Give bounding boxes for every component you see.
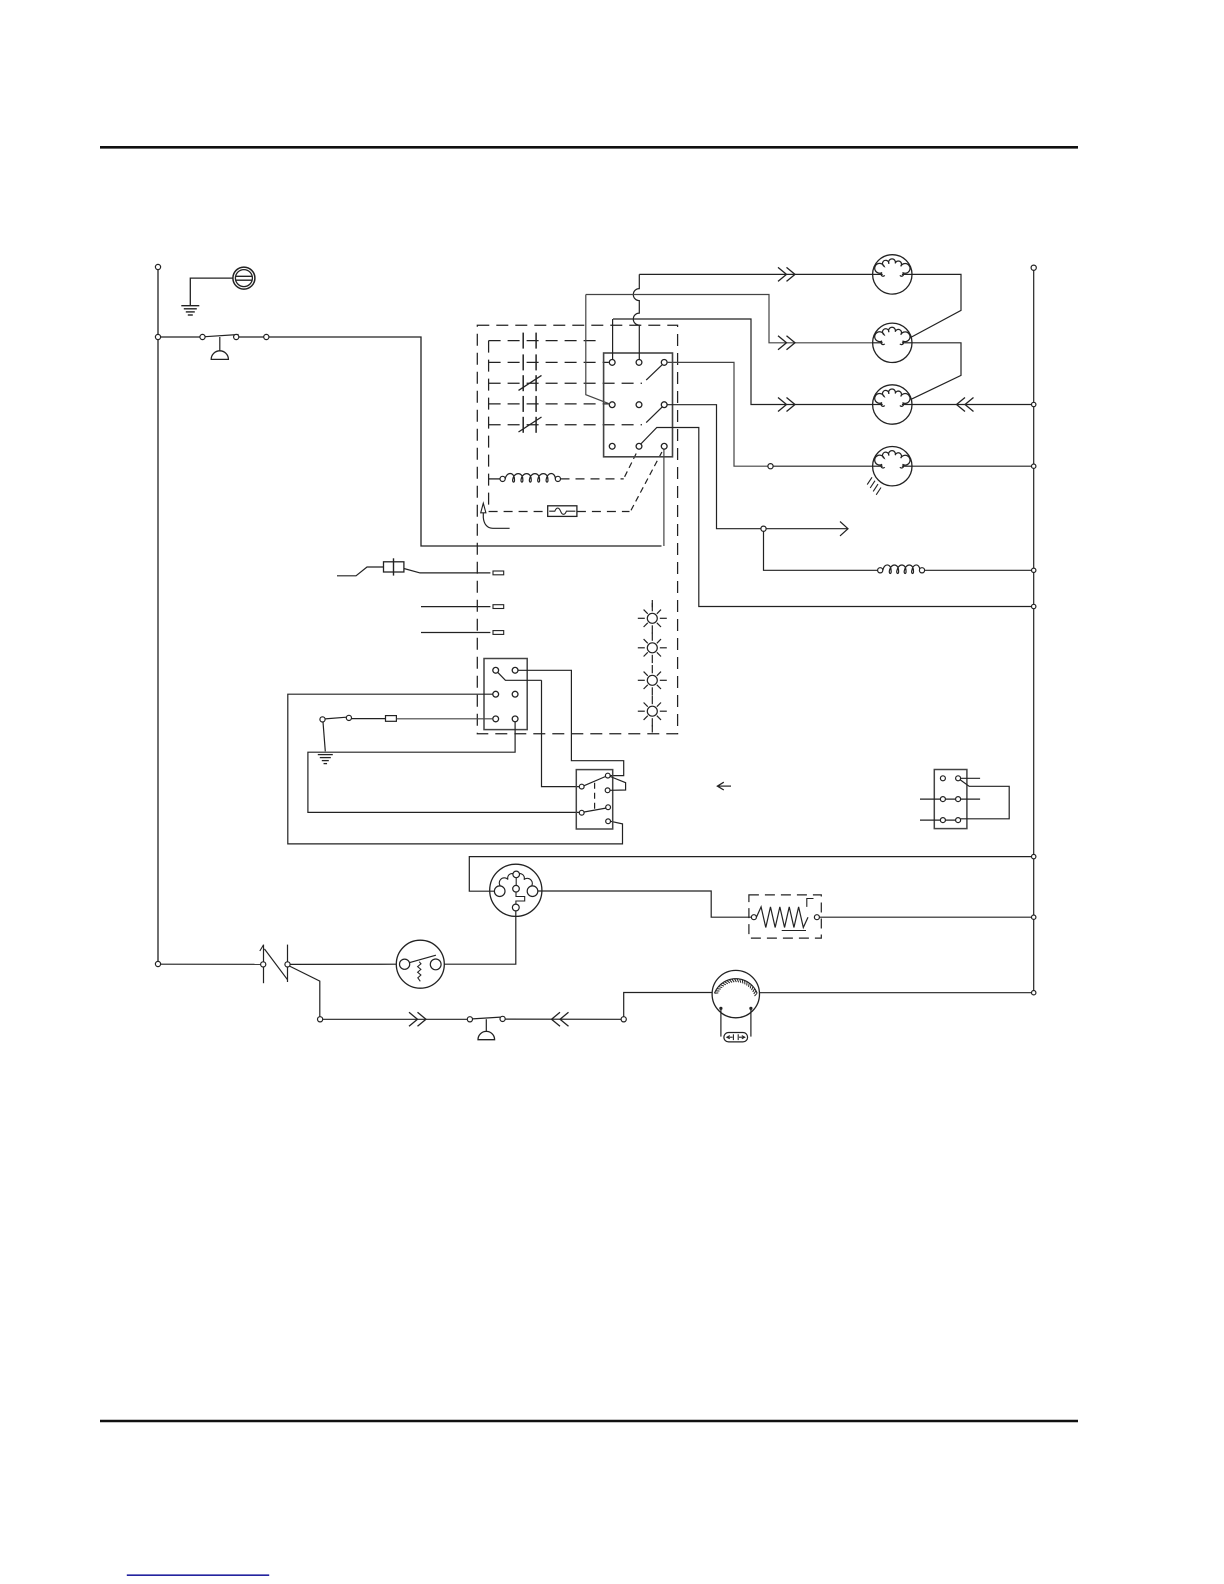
terminal lug stub1: [493, 571, 504, 575]
wire spare to choke: [764, 531, 878, 570]
wire lower row to fan motor: [624, 993, 713, 1017]
relay block terminal r2c2: [512, 691, 518, 697]
contactor terminal r2c3: [661, 402, 667, 408]
contactor terminal r1c3: [661, 360, 667, 366]
ballast resistor R1 left terminal: [751, 915, 756, 920]
wire breaker to flasher: [290, 963, 396, 965]
selector terminal R4: [606, 819, 611, 824]
connector chevrons motor2 feed: [778, 336, 795, 350]
thermal fuse F1: [548, 506, 577, 517]
relay coil K1 right terminal: [555, 476, 560, 481]
pull switch SW2 left contact: [467, 1017, 472, 1022]
relay contact row 5 (NC): [489, 417, 642, 433]
wire relay r3c2 to selector: [308, 722, 579, 813]
node motor4 feed terminal: [768, 464, 773, 469]
blower motor M3: [873, 385, 912, 424]
ballast resistor R1 right terminal: [814, 915, 819, 920]
contactor terminal r2c2: [636, 402, 642, 408]
washer pump motor M2: [873, 323, 912, 362]
node left rail tee at ignition switch: [155, 334, 160, 339]
wire pole3 to arrow node: [641, 428, 1032, 607]
node right rail at connector: [1032, 854, 1036, 858]
bottom horizontal rule: [100, 1420, 1078, 1423]
wire pole1 out to motor4: [667, 362, 768, 466]
wire relay blade to selector: [542, 680, 580, 786]
pull switch SW1 left contact: [200, 334, 205, 339]
reference arrow left: [717, 782, 731, 790]
fuse F2: [386, 716, 397, 722]
contactor terminal r3c1: [609, 443, 615, 449]
wire fuse F2 to relay block: [396, 718, 492, 720]
selector terminal R1: [605, 773, 610, 778]
contactor terminal r1c1: [609, 360, 615, 366]
node right rail at pole3: [1032, 604, 1036, 608]
wire choke to right rail: [925, 569, 1032, 571]
node right rail at fan: [1032, 991, 1036, 995]
ground switch SW3 contact b: [346, 715, 351, 720]
footer blue link underline: [127, 1574, 269, 1576]
node battery feed top terminal: [155, 264, 160, 269]
wire fuse to contactor dashed: [577, 511, 630, 513]
flasher unit FL1: [396, 940, 444, 988]
relay contact row 3 (NC): [489, 375, 642, 391]
connector chevrons motor1 feed: [778, 267, 795, 281]
pull switch SW1 right contact: [234, 334, 239, 339]
breaker CB1 pole line 1: [263, 945, 265, 984]
ballast resistor dashed box: [749, 895, 821, 938]
relay coil K1 left terminal: [500, 476, 505, 481]
wire resistor to right rail: [819, 916, 1031, 918]
selector gang link dashed: [594, 783, 596, 810]
pull switch SW2 bell knob: [478, 1031, 495, 1039]
contactor blade pole2: [646, 407, 662, 423]
wire bus to fuse dashed: [489, 511, 548, 513]
wire motor2 feed: [586, 295, 873, 343]
node right rail at motor4: [1032, 464, 1036, 468]
accessory stub top right: [961, 777, 981, 779]
wire pole2 out: [667, 405, 761, 529]
wire SW3 to fuse F2: [352, 718, 386, 720]
lamp chain dashed wire: [651, 600, 653, 733]
fan motor M5: [712, 970, 759, 1036]
indicator lamp LP1: [638, 603, 667, 634]
pull switch SW1 actuator stem: [219, 337, 221, 351]
connector chevrons motor3 feed: [778, 398, 795, 412]
breaker CB1 pole line 2: [287, 945, 289, 982]
ground SW3: [318, 755, 333, 764]
wire coil to contactor dashed: [561, 478, 624, 480]
connector chevrons lower right-pointing: [409, 1012, 426, 1026]
accessory switch body: [934, 770, 967, 829]
node left rail bottom terminal: [155, 961, 160, 966]
accessory terminal r3c1: [940, 818, 945, 823]
choke L2: [883, 565, 920, 574]
connector chevrons motor3 return: [957, 398, 974, 412]
multi-pin connector P1: [490, 864, 542, 916]
control box inner bus dashed vertical: [488, 341, 490, 512]
wire connector P1 to resistor: [538, 891, 752, 917]
terminal lug stub3: [493, 631, 504, 635]
choke L2 left terminal: [878, 568, 883, 573]
relay block terminal r1c1: [493, 667, 499, 673]
wire rail to connector P1: [469, 857, 1031, 892]
wire SW3 to ground: [323, 722, 325, 751]
wire lower row a: [323, 1018, 468, 1020]
terminal lug stub2: [493, 605, 504, 609]
selector jumper R1-R2: [610, 777, 626, 791]
contactor terminal r3c3: [661, 443, 667, 449]
relay coil K1 lead: [489, 478, 500, 480]
wire right rail: [1033, 270, 1035, 992]
wire feed B vertical: [612, 319, 614, 360]
overload trip arrow: [481, 503, 510, 528]
wire motor3 to right rail: [912, 404, 1032, 406]
breaker CB1 blade: [264, 949, 287, 980]
wiper motor M1: [873, 255, 912, 294]
selector terminal R2: [605, 788, 610, 793]
contactor block body: [604, 353, 673, 457]
pull switch SW2 right contact: [500, 1016, 505, 1021]
selector terminal L2: [579, 810, 584, 815]
selector blade 2: [584, 808, 606, 812]
wire fan motor to right rail: [760, 992, 1032, 994]
wire motor4 to right rail: [912, 465, 1032, 467]
relay block body: [484, 659, 527, 730]
relay block blade: [498, 672, 542, 680]
node spare output terminal: [761, 526, 766, 531]
node right rail at motor3: [1032, 402, 1036, 406]
contactor blade pole1: [646, 365, 662, 380]
wire rail to pull switch SW1: [161, 336, 200, 338]
wire stub2: [421, 606, 490, 608]
accessory terminal r1c2: [956, 776, 961, 781]
indicator lamp LP3: [638, 665, 667, 696]
pull switch SW1 bell knob: [211, 351, 228, 360]
node SW1 output terminal: [264, 334, 269, 339]
breaker CB1 arrow barb: [260, 945, 264, 951]
wire feed A vertical with hops: [633, 274, 639, 359]
wire coil diagonal to contactor: [625, 451, 638, 477]
relay block terminal r3c2: [512, 716, 518, 722]
wire feed C vertical: [586, 295, 610, 404]
contactor terminal r1c2: [636, 360, 642, 366]
wire left rail vertical: [157, 270, 159, 962]
pull switch SW2 stem: [485, 1019, 487, 1031]
relay block terminal r3c1: [493, 716, 499, 722]
wire SW1 link: [239, 336, 264, 338]
selector switch body: [576, 770, 612, 829]
cigar lighter L1: [233, 267, 255, 289]
choke L2 right terminal: [919, 568, 924, 573]
wire lighter to ground: [190, 278, 233, 306]
suppressor capacitor C1: [724, 1033, 748, 1042]
indicator lamp LP2: [638, 633, 667, 664]
breaker CB1 terminal 1: [261, 962, 266, 967]
node right rail at choke: [1032, 568, 1036, 572]
arrow spare output: [766, 522, 848, 536]
indicator lamp LP4: [638, 696, 667, 727]
relay block terminal r2c1: [493, 691, 499, 697]
selector terminal R3: [606, 805, 611, 810]
ballast resistor R1 zigzag: [756, 907, 808, 928]
accessory terminal r1c1: [940, 776, 945, 781]
control box dashed outline: [477, 325, 677, 733]
wire rail to breaker: [161, 963, 261, 965]
relay contact row 4: [489, 396, 609, 412]
node right rail at resistor: [1032, 915, 1036, 919]
contactor terminal r3c2: [636, 443, 642, 449]
wire control box feed riser: [663, 449, 665, 546]
ballast resistor R1 tap: [782, 899, 814, 931]
ground switch SW3 contact a: [320, 717, 325, 722]
heater motor M4: [873, 447, 912, 486]
pull switch SW1 blade: [205, 335, 239, 337]
relay contact row 1: [489, 333, 601, 349]
wire relay r1c2 to selector: [518, 670, 624, 775]
relay contact row 2: [489, 354, 609, 370]
ground switch SW3 blade: [325, 717, 346, 719]
right rail top terminal: [1031, 265, 1036, 270]
connector chevrons lower left-pointing: [552, 1012, 569, 1026]
wire stub3: [421, 632, 490, 634]
wire motor3 feed: [613, 319, 873, 405]
wire motor1 feed: [639, 273, 872, 275]
accessory wire bottom row: [920, 819, 956, 821]
top horizontal rule: [100, 146, 1078, 149]
wire motor1 to motor2: [903, 274, 962, 342]
accessory terminal r3c2: [956, 818, 961, 823]
accessory wire middle row: [920, 798, 980, 800]
wire SW1 to control box: [269, 337, 662, 546]
wire breaker branch to lower row: [290, 966, 320, 1017]
chassis ground hatch at motor4: [867, 477, 881, 495]
wire fuse diagonal to contactor: [631, 452, 662, 510]
spark plug lead: [337, 558, 490, 576]
contactor terminal r2c1: [609, 402, 615, 408]
wire motor4 feed: [773, 465, 873, 467]
accessory terminal r2c1: [940, 797, 945, 802]
wire connector P1 to flasher: [444, 911, 516, 964]
wire relay r2c1 loop: [288, 694, 623, 844]
wire motor2 to motor3: [903, 343, 961, 403]
pull switch SW2 blade: [473, 1017, 505, 1019]
selector blade 1: [584, 777, 605, 786]
node lower row to fan: [621, 1017, 626, 1022]
breaker CB1 terminal 2: [285, 962, 290, 967]
wire lower row b: [505, 1018, 621, 1020]
accessory jumper: [960, 780, 1009, 819]
selector terminal L1: [579, 784, 584, 789]
relay coil K1: [505, 474, 555, 483]
ground lighter: [181, 306, 199, 315]
node lower row start: [318, 1017, 323, 1022]
accessory terminal r2c2: [956, 797, 961, 802]
relay block terminal r1c2: [512, 667, 518, 673]
